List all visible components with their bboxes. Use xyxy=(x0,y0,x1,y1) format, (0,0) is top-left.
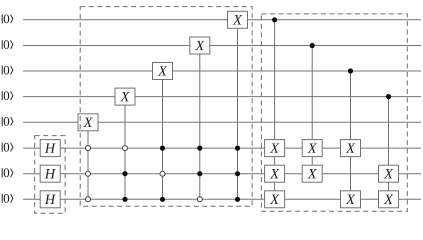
control dot (filled) q7 left col2 xyxy=(122,197,127,202)
qubit label |0> q7 xyxy=(2,194,13,203)
wire q4 xyxy=(23,121,421,123)
wire vertical connector right col2 xyxy=(311,46,313,174)
gate X q1 (left col4) xyxy=(190,37,210,54)
wire q6 xyxy=(23,173,421,175)
gate X q4 (left col1) xyxy=(78,114,98,131)
control dot (filled) q6 left col5 xyxy=(235,171,240,176)
dashed box: Hadamard stage xyxy=(35,136,65,214)
wire q2 xyxy=(23,70,421,72)
wire vertical connector left col4 xyxy=(199,46,201,200)
gate H q7 xyxy=(40,191,60,208)
control dot (open) q5 left col2 xyxy=(123,146,128,151)
qubit label |0> q4 xyxy=(2,117,13,126)
gate X q2 (left col3) xyxy=(153,63,173,80)
wire q3 xyxy=(23,96,421,98)
wire vertical connector right col4 xyxy=(388,97,390,200)
wire vertical connector left col2 xyxy=(124,97,126,200)
control dot (filled) q5 left col5 xyxy=(235,146,240,151)
gate H q5 xyxy=(40,140,60,157)
wire vertical connector right col1 xyxy=(274,20,276,200)
wire vertical connector left col3 xyxy=(162,71,164,199)
wire q5 xyxy=(23,147,421,149)
control dot (filled) q1 right col2 xyxy=(310,43,315,48)
control dot (filled) q3 right col4 xyxy=(386,94,391,99)
qubit label |0> q2 xyxy=(2,66,13,75)
control dot (open) q7 left col1 xyxy=(86,197,91,202)
qubit label |0> q3 xyxy=(2,91,13,100)
qubit label |0> q0 xyxy=(2,14,13,23)
gate X q0 (left col5) xyxy=(228,11,248,28)
gate X q5 (right col2) xyxy=(302,140,322,157)
wire vertical connector right col3 xyxy=(350,71,352,199)
control dot (filled) q6 left col2 xyxy=(122,171,127,176)
control dot (filled) q0 right col1 xyxy=(272,17,277,22)
control dot (filled) q6 left col4 xyxy=(197,171,202,176)
qubit label |0> q5 xyxy=(2,143,13,152)
qubit label |0> q1 xyxy=(2,40,13,49)
wire vertical connector left col1 xyxy=(87,122,89,199)
gate X q6 (right col1) xyxy=(265,165,285,182)
control dot (filled) q5 left col4 xyxy=(197,146,202,151)
wire vertical connector left col5 xyxy=(237,20,239,200)
gate X q6 (right col4) xyxy=(379,165,399,182)
gate H q6 xyxy=(40,165,60,182)
control dot (open) q7 left col4 xyxy=(197,197,202,202)
control dot (filled) q2 right col3 xyxy=(348,68,353,73)
gate X q7 (right col4) xyxy=(379,191,399,208)
gate X q3 (left col2) xyxy=(115,88,135,105)
wire q1 xyxy=(23,45,421,47)
qubit label |0> q6 xyxy=(2,168,13,177)
gate X q7 (right col1) xyxy=(265,191,285,208)
control dot (open) q6 left col3 xyxy=(160,171,165,176)
control dot (filled) q5 left col3 xyxy=(160,146,165,151)
gate X q5 (right col3) xyxy=(341,140,361,157)
control dot (filled) q7 left col3 xyxy=(160,197,165,202)
control dot (filled) q7 left col5 xyxy=(235,197,240,202)
dashed box: multi-controlled-X stage xyxy=(80,7,252,207)
gate X q7 (right col3) xyxy=(341,191,361,208)
dashed box: controlled-X fanout stage xyxy=(261,14,407,211)
wire q7 xyxy=(23,198,421,200)
wire q0 xyxy=(23,19,421,21)
gate X q5 (right col1) xyxy=(265,140,285,157)
control dot (open) q5 left col1 xyxy=(86,146,91,151)
control dot (open) q6 left col1 xyxy=(86,171,91,176)
gate X q6 (right col2) xyxy=(302,165,322,182)
